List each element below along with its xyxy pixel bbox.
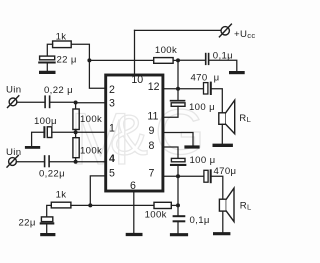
wire C7 to pin 4 (50, 161, 106, 163)
svg-text:10: 10 (131, 74, 143, 86)
speaker RL (bottom) (219, 188, 234, 222)
node D junction (74, 130, 78, 134)
capacitor C5 0,22u (top input) (45, 96, 50, 107)
wire C3 to speaker (212, 89, 223, 113)
resistor R1 1k (top feedback) (53, 41, 72, 48)
node pin7 junction (176, 174, 180, 178)
node C junction (74, 101, 78, 105)
wire R4 to node E (75, 158, 77, 162)
wire pin 8 to C10 (163, 147, 178, 158)
node pin12 junction (176, 87, 180, 91)
resistor R3 100k (bias upper) (73, 109, 79, 130)
svg-text:0,22 μ: 0,22 μ (44, 85, 73, 96)
wire node F to R6 (90, 204, 154, 206)
wire node B to C2 (178, 59, 205, 61)
wire pin 7 (163, 175, 204, 177)
wire pin 12 (163, 88, 203, 90)
capacitor C2 0,1u (top) (206, 54, 209, 65)
capacitor C10 100u (bottom channel bootstrap) (171, 158, 185, 165)
watermark (70, 96, 205, 180)
svg-text:100k: 100k (155, 45, 177, 56)
wire node A to pin 2 (89, 60, 105, 88)
wire pin12 node down to C4 (177, 89, 179, 100)
svg-text:100μ: 100μ (34, 116, 57, 127)
ground (0,1u bottom) (172, 233, 187, 236)
wire node B down to pin 12 node (177, 60, 179, 88)
wire pin 5 down to node F (90, 176, 105, 206)
svg-text:9: 9 (148, 125, 154, 137)
terminal +Ucc (219, 24, 231, 37)
wire speaker to ground (top) (221, 124, 223, 143)
node A junction (87, 58, 91, 62)
svg-text:12: 12 (148, 81, 160, 93)
wire R6 to node G (171, 204, 178, 206)
wire C6 to ground (32, 132, 44, 146)
svg-text:G: G (155, 96, 205, 168)
svg-text:2: 2 (109, 84, 115, 96)
svg-text:RL: RL (240, 201, 252, 212)
capacitor C3 470u (top) (204, 83, 211, 94)
resistor R5 1k (bottom feedback) (51, 202, 71, 208)
svg-text:22μ: 22μ (19, 217, 36, 228)
ground (0,1u top) (231, 71, 244, 74)
svg-text:Uin: Uin (6, 147, 21, 158)
input terminal Uin (top) (8, 96, 19, 108)
wire C11 to speaker bottom (211, 176, 222, 199)
wire node C to R3 (75, 103, 77, 109)
ground (22u top) (41, 71, 54, 74)
wire pin 6 to ground (133, 191, 135, 233)
node G junction (176, 203, 180, 207)
wire R1 right lead to node A (71, 44, 89, 60)
op-amp IC U1 (106, 75, 163, 191)
wire C5 to pin 3 (50, 101, 105, 104)
wire node D to pin 1 (76, 131, 106, 133)
capacitor C6 100u (bias decoupling) (44, 127, 51, 138)
wire pin10 supply drop (134, 30, 136, 74)
svg-text:RL: RL (239, 113, 251, 124)
ground (speaker top) (214, 144, 231, 147)
wire C8 to ground (46, 225, 48, 234)
wire +Ucc rail (135, 29, 221, 31)
svg-text:0,1μ: 0,1μ (190, 215, 210, 226)
ground (pin 6) (127, 233, 141, 236)
capacitor C7 0,22u (bottom input) (45, 156, 50, 167)
ground (C6) (26, 146, 39, 149)
svg-text:470μ: 470μ (214, 166, 237, 177)
svg-text:470 μ: 470 μ (191, 73, 220, 84)
wire R5 right to node F (71, 204, 90, 206)
wire pin 9 to ground (163, 133, 193, 146)
svg-text:8: 8 (148, 140, 154, 152)
svg-text:0,22μ: 0,22μ (39, 169, 65, 180)
wire R3 to node D (75, 130, 77, 138)
resistor R4 100k (bias lower) (73, 138, 79, 158)
svg-text:+Ucc: +Ucc (234, 29, 256, 40)
input terminal Uin (bottom) (7, 155, 18, 167)
node E junction (74, 160, 78, 164)
capacitor C9 0,1u (bottom) (174, 216, 185, 221)
svg-text:&: & (110, 104, 148, 168)
svg-text:7: 7 (149, 167, 155, 179)
wire C4 to pin 11 (163, 106, 178, 117)
wire node G up to pin 7 node (177, 176, 179, 205)
svg-text:22 μ: 22 μ (57, 55, 77, 66)
wire node D to C6 (52, 131, 76, 133)
wire C10 down to pin 7 node (177, 166, 179, 176)
wire feedback line A to R2 (89, 59, 153, 61)
svg-text:Uin: Uin (6, 85, 21, 96)
wire speaker bottom to ground (222, 211, 224, 232)
wire Uin bottom to C7 (16, 161, 43, 163)
wire C9 to ground (177, 222, 179, 233)
svg-text:100k: 100k (145, 210, 167, 221)
ground (speaker bottom) (215, 232, 229, 235)
capacitor C1 22u (top) (39, 56, 55, 62)
wire R2 right to node B (173, 59, 178, 61)
svg-text:6: 6 (130, 180, 136, 192)
svg-text:1k: 1k (56, 31, 67, 42)
wire C2 to ground (209, 60, 237, 71)
wire R5 left to C8 (47, 205, 52, 217)
capacitor C8 22u (bottom) (41, 217, 53, 224)
ground (pin 9) (186, 145, 198, 148)
resistor R6 100k (bottom feedback) (154, 202, 171, 208)
wire Uin to C5 (17, 101, 44, 103)
speaker RL (top) (219, 100, 235, 134)
capacitor C11 470u (bottom) (204, 170, 211, 182)
svg-text:1k: 1k (56, 189, 67, 200)
wire C1 to ground (46, 64, 48, 72)
wire node G down to C9 (177, 205, 179, 215)
node F junction (88, 203, 92, 207)
capacitor C4 100u (top channel bootstrap) (171, 101, 185, 107)
wire R1 left lead (47, 44, 52, 56)
node B junction (176, 58, 180, 62)
resistor R2 100k (top feedback) (154, 58, 173, 64)
ground (22u bottom) (42, 233, 54, 236)
